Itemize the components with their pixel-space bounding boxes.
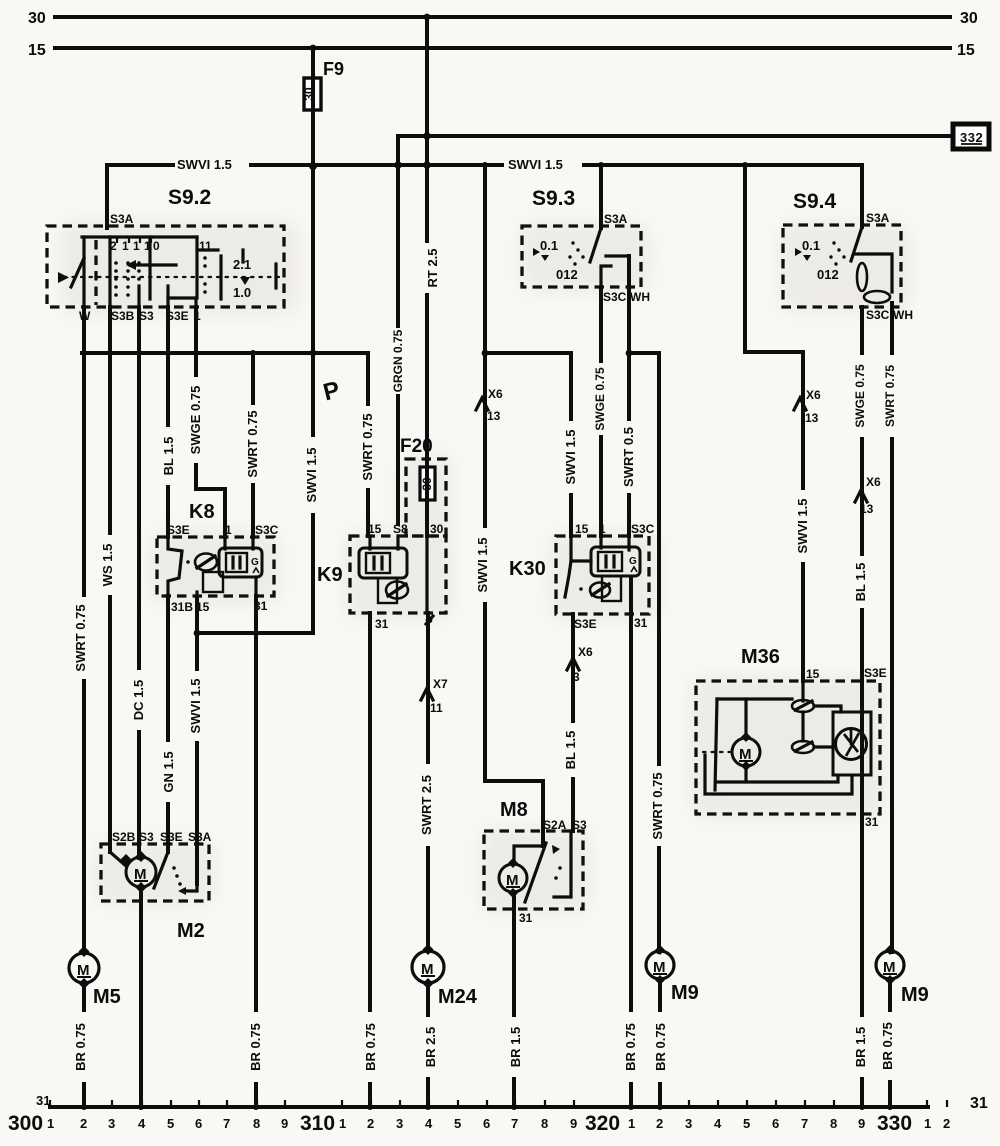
- svg-text:SWRT 0.5: SWRT 0.5: [621, 427, 636, 487]
- wire SWGE 0.75 S9.2 to K8 coil: [196, 307, 225, 537]
- svg-text:0.1: 0.1: [802, 238, 820, 253]
- motor symbol M8: [499, 864, 527, 892]
- svg-text:5: 5: [743, 1116, 750, 1131]
- svg-text:15: 15: [368, 522, 382, 536]
- motor M2 assembly: [101, 830, 212, 942]
- svg-text:S3E: S3E: [864, 666, 887, 680]
- node 332 reference box: [398, 124, 989, 149]
- wire S9.4 feed drop: [860, 165, 864, 227]
- svg-text:BR 0.75: BR 0.75: [73, 1023, 88, 1071]
- svg-text:BR 0.75: BR 0.75: [880, 1022, 895, 1070]
- M36 connector ovals: [801, 681, 804, 701]
- wire branch y353 to SWRT 0.75 M9: [629, 353, 659, 952]
- S9.2 wiper arm and arrow: [58, 272, 69, 283]
- svg-text:M24: M24: [438, 986, 478, 1008]
- S9.2 internal contact bar: [82, 235, 197, 238]
- label SWRT 0.75 wire x892: [882, 355, 898, 437]
- svg-text:X6: X6: [578, 645, 593, 659]
- svg-text:SWVI 1.5: SWVI 1.5: [508, 157, 563, 172]
- svg-text:31B: 31B: [171, 600, 193, 614]
- svg-text:BR 0.75: BR 0.75: [363, 1023, 378, 1071]
- label SWVI 1.5 on feed line left: [175, 157, 249, 172]
- svg-text:31: 31: [375, 617, 389, 631]
- label SWVI 1.5 wire x313: [304, 437, 320, 513]
- wire DC 1.5 S9.2 to M2 motor: [137, 307, 141, 858]
- wire K30-31 to bus 31: [629, 578, 633, 1107]
- svg-text:DC 1.5: DC 1.5: [131, 680, 146, 720]
- svg-text:S3E: S3E: [160, 830, 183, 844]
- svg-text:8: 8: [830, 1116, 837, 1131]
- svg-text:S3C: S3C: [255, 523, 279, 537]
- svg-text:M9: M9: [901, 984, 929, 1006]
- wire GRGN 0.75 from node 332 line to K9: [396, 136, 400, 524]
- switch S9.4: [783, 190, 913, 322]
- svg-text:BR 0.75: BR 0.75: [653, 1023, 668, 1071]
- svg-text:1: 1: [339, 1116, 346, 1131]
- motor M5: [69, 946, 121, 1008]
- svg-text:BR 2.5: BR 2.5: [423, 1027, 438, 1067]
- svg-text:M8: M8: [500, 799, 528, 821]
- label SWGE 0.75 wire x601: [592, 363, 608, 435]
- svg-text:M5: M5: [93, 986, 121, 1008]
- M36 left loop: [717, 697, 792, 700]
- label SWRT 0.75 wire x253: [245, 405, 261, 483]
- svg-text:2: 2: [943, 1116, 950, 1131]
- svg-text:S3C: S3C: [603, 290, 627, 304]
- svg-text:SWRT 0.75: SWRT 0.75: [360, 413, 375, 480]
- svg-text:S9.3: S9.3: [532, 187, 575, 210]
- svg-text:2: 2: [656, 1116, 663, 1131]
- wire BL 1.5 K30-S3E to M8: [571, 614, 575, 831]
- coil symbol K9: [359, 548, 407, 578]
- svg-text:9: 9: [281, 1116, 288, 1131]
- svg-text:BR 1.5: BR 1.5: [508, 1027, 523, 1067]
- svg-text:31: 31: [970, 1095, 988, 1112]
- svg-text:M2: M2: [177, 920, 205, 942]
- wire SWRT 0.75 to K8 S3C: [251, 353, 255, 537]
- svg-text:13: 13: [860, 502, 874, 516]
- svg-text:2: 2: [367, 1116, 374, 1131]
- svg-text:7: 7: [511, 1116, 518, 1131]
- svg-text:K8: K8: [189, 501, 215, 523]
- svg-text:SWRT 0.75: SWRT 0.75: [245, 410, 260, 477]
- bus 30 top: [55, 15, 950, 19]
- svg-text:0.1: 0.1: [540, 238, 558, 253]
- wire SWRT 0.75 S9.4 to M9 right: [890, 303, 894, 952]
- wire BL 1.5 S9.2 to K8: [166, 307, 170, 537]
- svg-text:S2A: S2A: [543, 818, 567, 832]
- wire SWVI 1.5 drop x485 to M8: [485, 165, 543, 846]
- bottom current-track ticks and numbers: [50, 1100, 947, 1107]
- switch S9.3: [522, 187, 650, 304]
- S9.2 internal wires: [108, 237, 111, 307]
- svg-text:S3A: S3A: [866, 211, 890, 225]
- connector X6 3 below K30: [567, 645, 593, 684]
- svg-text:4: 4: [138, 1116, 146, 1131]
- svg-text:SWVI 1.5: SWVI 1.5: [475, 538, 490, 593]
- fuse F20: [400, 436, 446, 536]
- svg-text:S3A: S3A: [188, 830, 212, 844]
- svg-text:SWVI 1.5: SWVI 1.5: [304, 448, 319, 503]
- connector X6 13 on SWVI wire x485: [476, 387, 503, 423]
- label BR 0.75 wire x890 bottom: [880, 1012, 896, 1080]
- svg-text:X6: X6: [866, 475, 881, 489]
- K8 sub box: [203, 572, 223, 592]
- wire K9-31 to bus 31: [368, 613, 372, 1107]
- svg-text:8: 8: [541, 1116, 548, 1131]
- svg-text:BR 0.75: BR 0.75: [248, 1023, 263, 1071]
- motor M36 assembly: [696, 646, 887, 829]
- svg-text:3: 3: [573, 670, 580, 684]
- svg-text:5: 5: [454, 1116, 461, 1131]
- label BR 1.5 wire x862 bottom: [853, 1017, 869, 1077]
- svg-text:31: 31: [634, 616, 648, 630]
- motor symbol M2: [126, 857, 156, 887]
- wire link K8-15 horizontal y633: [197, 598, 313, 633]
- svg-text:1: 1: [924, 1116, 931, 1131]
- wire left collector horizontal y353 to K9: [82, 353, 368, 536]
- fuse F9: [302, 59, 344, 110]
- svg-text:5: 5: [167, 1116, 174, 1131]
- svg-text:1: 1: [628, 1116, 635, 1131]
- svg-text:SWGE 0.75: SWGE 0.75: [593, 367, 607, 431]
- label BR 1.5 wire x514 bottom: [508, 1017, 524, 1077]
- label DC 1.5 wire x139: [131, 670, 147, 730]
- label BL 1.5 wire x573: [563, 723, 579, 777]
- label SWVI 1.5 wire x803: [795, 490, 811, 562]
- svg-text:8: 8: [253, 1116, 260, 1131]
- svg-text:SWVI 1.5: SWVI 1.5: [795, 499, 810, 554]
- label BR 0.75 wire x84 bottom: [73, 1012, 89, 1082]
- svg-text:330: 330: [877, 1112, 912, 1135]
- svg-text:SWVI 1.5: SWVI 1.5: [188, 679, 203, 734]
- svg-text:WH: WH: [893, 308, 913, 322]
- svg-text:4: 4: [714, 1116, 722, 1131]
- pin arrow below K9 pin 30: [426, 616, 433, 624]
- label BR 0.75 wire x256 bottom: [248, 1012, 264, 1082]
- wire F9 feed from bus 15: [311, 48, 315, 166]
- svg-text:1.0: 1.0: [233, 285, 251, 300]
- svg-text:012: 012: [817, 267, 839, 282]
- label WS 1.5 wire x110: [100, 535, 116, 595]
- wire M36 pass through to bus 31: [860, 681, 864, 1107]
- svg-text:30: 30: [430, 522, 444, 536]
- bus 15 top: [55, 46, 950, 50]
- svg-text:4: 4: [425, 1116, 433, 1131]
- bus 31 bottom: [50, 1105, 928, 1109]
- wire M2 motor to bus 31: [139, 888, 143, 1107]
- svg-text:15: 15: [957, 42, 975, 59]
- svg-text:15: 15: [806, 667, 820, 681]
- svg-text:SWGE 0.75: SWGE 0.75: [853, 364, 867, 428]
- connector symbol K30: [590, 583, 610, 598]
- svg-text:M36: M36: [741, 646, 780, 668]
- svg-text:1: 1: [47, 1116, 54, 1131]
- svg-text:S3C: S3C: [866, 308, 890, 322]
- svg-text:0: 0: [153, 239, 160, 253]
- motor M24: [412, 944, 478, 1008]
- label SWVI 1.5 wire x485: [475, 528, 491, 602]
- svg-text:31: 31: [519, 911, 533, 925]
- label GN 1.5 wire x168 lower: [161, 742, 177, 802]
- svg-text:G: G: [251, 557, 259, 568]
- wire branch y353 right to SWVI K30: [485, 353, 571, 536]
- svg-text:15: 15: [28, 42, 46, 59]
- svg-text:6: 6: [772, 1116, 779, 1131]
- svg-text:S3E: S3E: [574, 617, 597, 631]
- svg-text:GN 1.5: GN 1.5: [161, 751, 176, 792]
- label SWVI 1.5 on feed line right: [504, 157, 582, 172]
- svg-text:7: 7: [223, 1116, 230, 1131]
- wire SWVI 1.5 S9.2 to junction 633: [311, 166, 315, 633]
- svg-text:SWRT 2.5: SWRT 2.5: [419, 775, 434, 835]
- svg-text:SWGE 0.75: SWGE 0.75: [188, 386, 203, 455]
- svg-text:012: 012: [556, 267, 578, 282]
- svg-text:M9: M9: [671, 982, 699, 1004]
- wire M9 left to bus 31: [658, 980, 662, 1107]
- S9.2 internal dashed divider: [94, 240, 97, 305]
- label GRGN 0.75 wire x398: [390, 328, 406, 394]
- svg-text:SWVI 1.5: SWVI 1.5: [177, 157, 232, 172]
- coil symbol K8: [219, 548, 262, 577]
- wire M9 right to bus 31: [888, 980, 892, 1107]
- motor M9 right: [876, 945, 929, 1006]
- wire SWGE 0.75 S9.3 to K30 coil: [599, 287, 603, 536]
- motor symbol M36: [732, 738, 760, 766]
- wire M24 to bus 31: [426, 986, 430, 1107]
- switch S9.2: [47, 186, 284, 323]
- svg-text:SWRT 0.75: SWRT 0.75: [883, 365, 897, 427]
- label SWRT 0.75 wire x84: [73, 597, 89, 679]
- svg-text:S9.2: S9.2: [168, 186, 211, 209]
- svg-text:31: 31: [865, 815, 879, 829]
- svg-text:13: 13: [805, 411, 819, 425]
- svg-text:S3A: S3A: [604, 212, 628, 226]
- S9.2 dash-dot coupling line: [64, 276, 281, 278]
- label SWGE 0.75 wire x862: [852, 355, 868, 437]
- svg-text:BL 1.5: BL 1.5: [161, 437, 176, 476]
- wire K8-31 to bus 31: [254, 596, 258, 1107]
- wire SWRT 0.5 S9.3 to K30 S3C: [627, 256, 631, 536]
- svg-text:X6: X6: [488, 387, 503, 401]
- connector X6 13 on wire x803: [794, 388, 821, 425]
- S9.2 wiper contact with arrow: [130, 263, 176, 266]
- svg-text:S3A: S3A: [110, 212, 134, 226]
- svg-text:BR 0.75: BR 0.75: [623, 1023, 638, 1071]
- svg-text:31: 31: [36, 1093, 50, 1108]
- svg-text:11: 11: [199, 239, 212, 253]
- svg-text:S3C: S3C: [631, 522, 655, 536]
- svg-text:2.1: 2.1: [233, 257, 251, 272]
- svg-text:30: 30: [28, 10, 46, 27]
- wire WS 1.5 S9.2 to M2: [108, 307, 112, 852]
- svg-text:WS 1.5: WS 1.5: [100, 544, 115, 587]
- connector symbol K9: [386, 582, 408, 599]
- svg-text:9: 9: [858, 1116, 865, 1131]
- svg-text:S3B: S3B: [111, 309, 135, 323]
- svg-text:320: 320: [585, 1112, 620, 1135]
- svg-text:SWVI 1.5: SWVI 1.5: [563, 430, 578, 485]
- svg-text:S8: S8: [393, 522, 408, 536]
- wire SWGE 0.75 / BL 1.5 S9.4 to M36: [860, 307, 864, 681]
- connector X6 13 on wire x862: [855, 475, 881, 516]
- label BL 1.5 wire x862 lower: [853, 556, 869, 608]
- relay K30: [509, 522, 655, 631]
- svg-text:13: 13: [487, 409, 501, 423]
- label BR 0.75 wire x631 bottom: [623, 1012, 639, 1082]
- svg-text:SWRT 0.75: SWRT 0.75: [650, 772, 665, 839]
- svg-text:332: 332: [960, 130, 983, 145]
- svg-text:S3: S3: [139, 830, 154, 844]
- motor M8 assembly: [484, 799, 587, 925]
- svg-text:3: 3: [396, 1116, 403, 1131]
- wire GN 1.5 K8-31B to M2: [166, 596, 170, 852]
- wire M5 to bus 31: [82, 986, 86, 1107]
- svg-text:K30: K30: [509, 558, 546, 580]
- svg-text:GRGN 0.75: GRGN 0.75: [391, 329, 405, 392]
- label RT 2.5 wire x427: [425, 243, 441, 293]
- svg-text:K9: K9: [317, 564, 343, 586]
- label SWRT 2.5 wire x428 lower: [419, 764, 435, 846]
- coil symbol K30: [591, 547, 640, 576]
- svg-text:S2B: S2B: [112, 830, 136, 844]
- svg-text:6: 6: [195, 1116, 202, 1131]
- wire S9.2 feed drop: [105, 165, 109, 228]
- label BR 2.5 wire x428 bottom: [423, 1017, 439, 1077]
- svg-text:S3: S3: [139, 309, 154, 323]
- label SWRT 0.75 wire x659: [650, 766, 666, 846]
- svg-text:WH: WH: [630, 290, 650, 304]
- wire SWVI 1.5 main distribution horizontal: [107, 163, 862, 167]
- connector symbol K8: [195, 554, 217, 571]
- label BR 0.75 wire x660 bottom: [653, 1012, 669, 1082]
- svg-text:X7: X7: [433, 677, 448, 691]
- svg-text:15: 15: [575, 522, 589, 536]
- svg-text:9: 9: [570, 1116, 577, 1131]
- svg-text:BL 1.5: BL 1.5: [853, 563, 868, 602]
- svg-text:BL 1.5: BL 1.5: [563, 731, 578, 770]
- motor M9 left: [646, 945, 699, 1004]
- svg-text:7: 7: [801, 1116, 808, 1131]
- wire SWVI 1.5 K8-15 to M2: [195, 633, 199, 884]
- relay K9: [317, 522, 446, 631]
- svg-text:30: 30: [960, 10, 978, 27]
- label SWVI 1.5 wire x571: [563, 421, 579, 493]
- svg-text:3: 3: [108, 1116, 115, 1131]
- wire SWRT 2.5 K9 to M24: [426, 613, 430, 950]
- wire S9.3 feed drop: [599, 165, 603, 228]
- svg-text:X6: X6: [806, 388, 821, 402]
- relay K8: [157, 501, 279, 614]
- svg-text:3: 3: [685, 1116, 692, 1131]
- label BL 1.5 wire x168 upper: [161, 427, 177, 485]
- svg-text:BR 1.5: BR 1.5: [853, 1027, 868, 1067]
- label SWVI 1.5 wire x197 lower: [188, 671, 204, 741]
- svg-text:2: 2: [80, 1116, 87, 1131]
- svg-text:SWRT 0.75: SWRT 0.75: [73, 604, 88, 671]
- svg-text:S3E: S3E: [167, 523, 190, 537]
- label SWRT 0.5 wire x629: [621, 421, 637, 493]
- svg-text:310: 310: [300, 1112, 335, 1135]
- svg-text:300: 300: [8, 1112, 43, 1135]
- label SWGE 0.75 wire x196: [188, 377, 204, 463]
- K8 switch: [168, 537, 182, 596]
- label SWRT 0.75 wire x368: [360, 406, 376, 488]
- svg-text:S9.4: S9.4: [793, 190, 837, 213]
- svg-text:F9: F9: [323, 59, 344, 79]
- svg-text:RT 2.5: RT 2.5: [425, 248, 440, 287]
- wire SWRT 0.75 from S9.2 W to M5: [82, 307, 86, 950]
- S9.2 step contact: [219, 256, 222, 299]
- svg-text:11: 11: [430, 701, 443, 715]
- wire M8 motor to bus 31: [512, 893, 516, 1107]
- svg-text:6: 6: [483, 1116, 490, 1131]
- pump symbol M36: [833, 712, 871, 775]
- svg-text:G: G: [629, 556, 637, 567]
- wire drop x745 to x803 M36: [745, 165, 803, 681]
- wire RT 2.5 feed from bus 30: [425, 17, 429, 536]
- label BR 0.75 wire x370 bottom: [363, 1012, 379, 1082]
- S9.2 dotted guide columns: [114, 256, 207, 297]
- connector X7 11 on SWRT wire x428: [421, 677, 448, 715]
